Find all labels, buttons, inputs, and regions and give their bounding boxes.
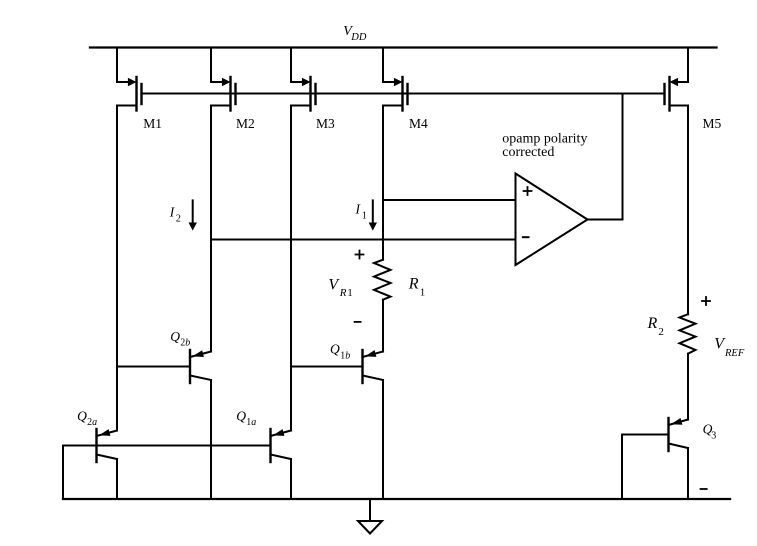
svg-text:V: V [328, 276, 340, 293]
transistor Q1b [363, 350, 384, 383]
wire op-amp inverting input from M2 drain [211, 239, 516, 241]
label Q2a [77, 408, 97, 428]
transistor M2 [211, 48, 236, 111]
svg-text:R: R [339, 287, 347, 299]
wire Q1b base from M3 branch [291, 366, 363, 368]
svg-text:M3: M3 [316, 116, 335, 131]
label Q3 [703, 422, 717, 442]
label Q2b [170, 329, 190, 349]
wire M1 drain down to Q2a emitter [116, 106, 118, 431]
svg-text:a: a [251, 417, 256, 428]
svg-text:1: 1 [362, 210, 367, 221]
transistor M4 [383, 48, 408, 111]
transistor Q2a [97, 429, 118, 462]
wire Q3 base to ground rail [622, 435, 669, 500]
svg-text:M2: M2 [236, 116, 255, 131]
label Q1a [236, 408, 256, 428]
label R1 [408, 276, 425, 299]
svg-text:2: 2 [658, 326, 664, 338]
svg-text:1: 1 [420, 287, 426, 299]
svg-text:1: 1 [347, 287, 353, 299]
label opamp note [502, 132, 587, 161]
resistor R1 [374, 260, 391, 300]
wire M4 drain down to R1 top [382, 106, 384, 260]
label M1 [143, 116, 162, 131]
wire base line down to ground rail [62, 446, 64, 500]
svg-text:Q: Q [77, 408, 87, 423]
VDD rail [90, 46, 717, 48]
plus mark above R2 [702, 297, 710, 305]
svg-text:b: b [185, 338, 190, 349]
gate bus wire M1..M5 [142, 93, 665, 95]
svg-text:I: I [355, 202, 362, 217]
current arrow I2 [189, 200, 197, 230]
node VDD label [343, 24, 367, 43]
svg-text:M5: M5 [703, 116, 722, 131]
wire M3 drain down to Q1a emitter [290, 106, 292, 431]
resistor R2 [680, 314, 696, 354]
svg-text:a: a [92, 417, 97, 428]
current arrow I1 [369, 200, 377, 230]
label VREF [714, 336, 745, 359]
svg-text:M1: M1 [143, 116, 162, 131]
svg-text:R: R [408, 276, 419, 293]
wire op-amp noninverting input from M4 drain [383, 199, 516, 201]
svg-text:I: I [169, 205, 176, 220]
minus mark VREF bottom [701, 488, 707, 490]
wire op-amp output to gate bus [588, 94, 623, 220]
wire R2 bottom to Q3 emitter [687, 354, 689, 420]
svg-text:REF: REF [724, 348, 745, 359]
minus mark below R1 [355, 321, 361, 323]
ground rail [63, 498, 730, 500]
label M4 [409, 116, 428, 131]
wire Q2b collector to ground rail [210, 380, 212, 499]
svg-text:b: b [345, 350, 350, 361]
transistor Q1a [271, 429, 292, 462]
op-amp U1 [516, 174, 588, 266]
label I2 [169, 205, 181, 225]
transistor Q2b [190, 350, 211, 383]
label M3 [316, 116, 335, 131]
label I1 [355, 202, 367, 222]
svg-text:DD: DD [350, 32, 367, 43]
wire M5 drain down to R2 top [687, 106, 689, 315]
wire R1 bottom to Q1b emitter [382, 300, 384, 352]
transistor M1 [117, 48, 142, 111]
svg-text:Q: Q [330, 342, 340, 357]
svg-text:M4: M4 [409, 116, 428, 131]
wire Q2b base from M1 branch [117, 366, 190, 368]
ground [358, 499, 382, 534]
transistor Q3 [669, 418, 689, 451]
svg-text:Q: Q [236, 408, 246, 423]
wire Q3 collector to ground rail [687, 448, 689, 499]
label Q1b [330, 342, 350, 362]
wire M2 drain down to Q2b emitter [210, 106, 212, 352]
svg-text:Q: Q [170, 329, 180, 344]
svg-text:corrected: corrected [502, 145, 554, 160]
label R2 [647, 315, 664, 338]
svg-text:2: 2 [176, 214, 181, 225]
plus mark above R1 [356, 251, 364, 259]
transistor M5 (mirrored) [665, 48, 689, 111]
label M2 [236, 116, 255, 131]
wire shared base line Q2a/Q1a [63, 445, 271, 447]
wire Q2a collector to ground rail [116, 459, 118, 499]
label M5 [703, 116, 722, 131]
wire Q1a collector to ground rail [290, 459, 292, 499]
transistor M3 [291, 48, 316, 111]
label VR1 [328, 276, 352, 299]
wire Q1b collector to ground rail [382, 380, 384, 499]
svg-text:3: 3 [711, 431, 716, 442]
svg-text:R: R [647, 315, 658, 332]
